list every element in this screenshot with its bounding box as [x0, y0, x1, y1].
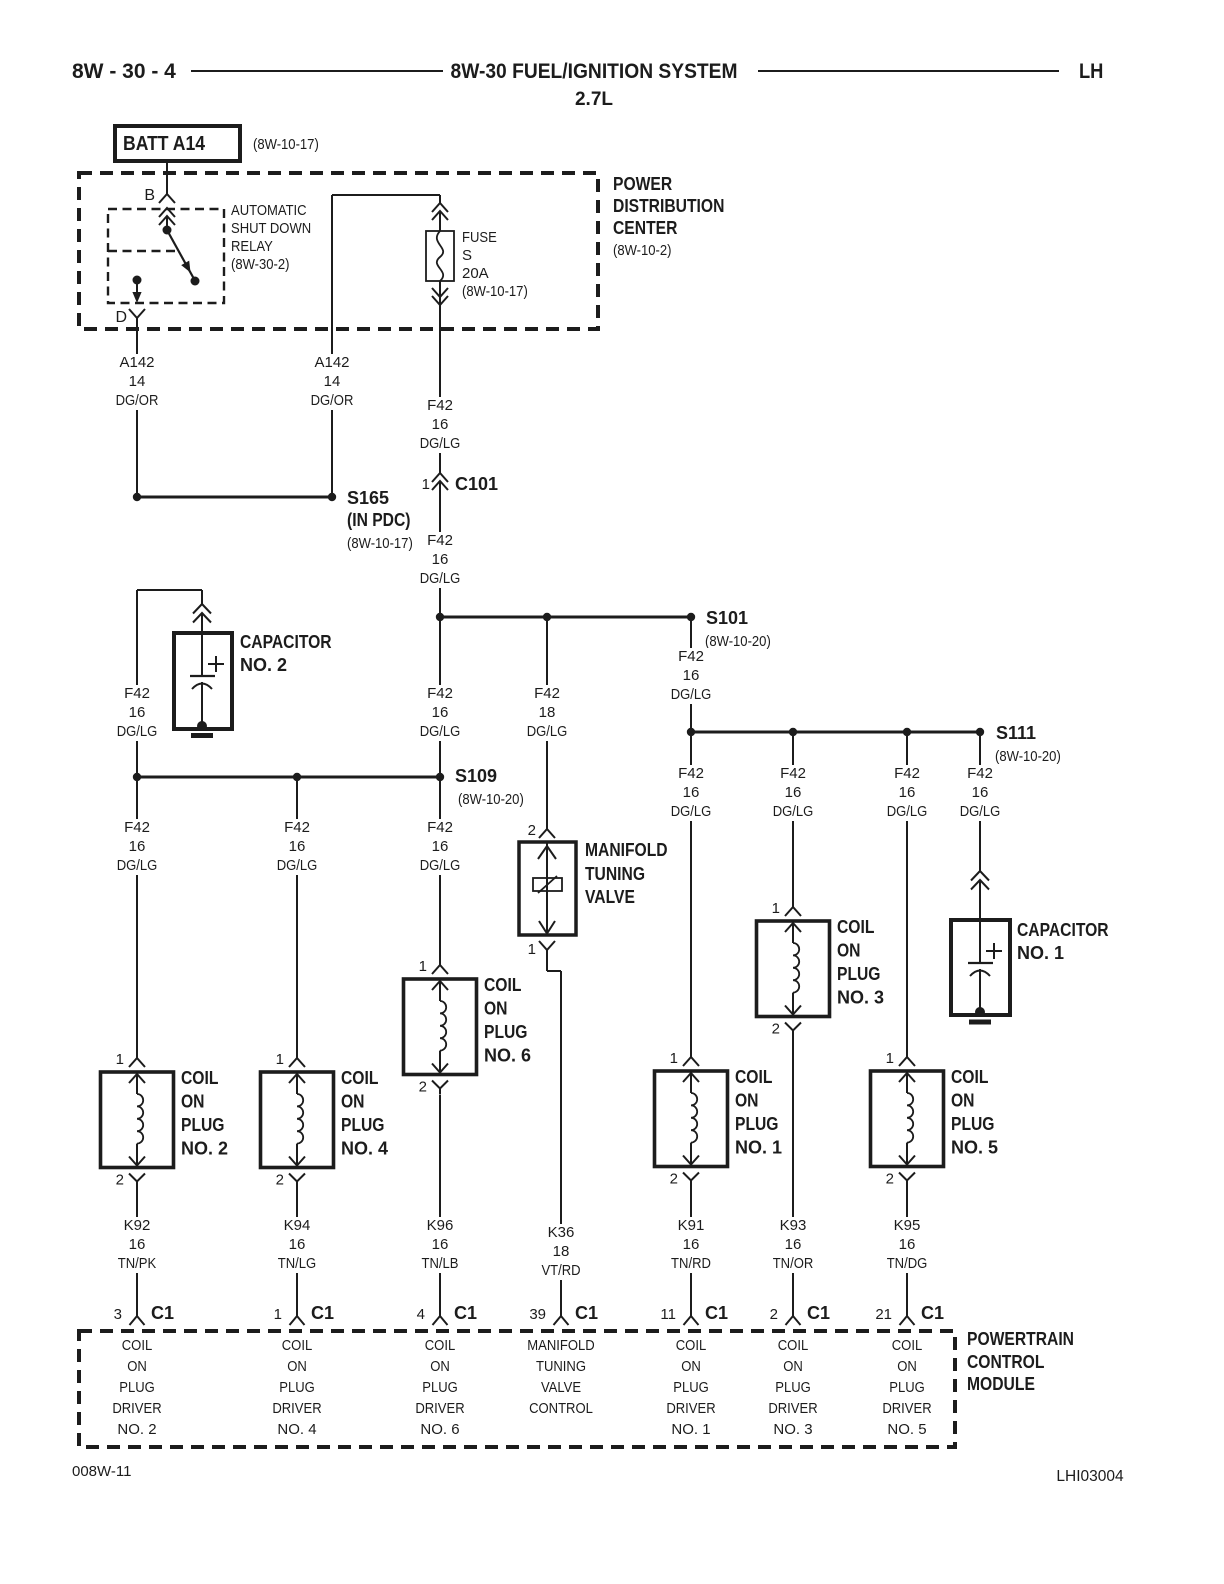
- svg-text:16: 16: [432, 551, 449, 568]
- junction dot S165 left: [133, 493, 141, 501]
- wire label K96: [417, 1217, 464, 1273]
- svg-text:CAPACITOR: CAPACITOR: [1017, 920, 1109, 940]
- wire label K column 2: [112, 819, 163, 875]
- automatic shut down relay dashed box: [108, 209, 224, 303]
- wire S111 to capacitor 1: [979, 732, 981, 871]
- junction dot S111 a: [687, 728, 695, 736]
- connector C1 pin 39: [554, 1316, 569, 1325]
- svg-text:S101: S101: [706, 608, 748, 628]
- svg-text:COIL: COIL: [892, 1337, 923, 1354]
- coil-on-plug no 1 box: [655, 1071, 728, 1167]
- coil-on-plug no 3 pin 1 connector: [792, 891, 794, 907]
- svg-text:2: 2: [419, 1079, 427, 1096]
- svg-text:NO. 2: NO. 2: [240, 655, 287, 675]
- wire label A142 14 DG/OR left: [111, 354, 164, 410]
- splice S165 bus: [137, 496, 332, 499]
- wire S111 to coil 1: [690, 732, 692, 1058]
- svg-text:2: 2: [772, 1021, 780, 1038]
- junction dot S111 c: [903, 728, 911, 736]
- svg-text:16: 16: [785, 1236, 802, 1253]
- wire coil 2 to PCM: [136, 1187, 138, 1316]
- svg-text:NO. 4: NO. 4: [277, 1421, 316, 1438]
- svg-text:(8W-10-20): (8W-10-20): [458, 791, 524, 808]
- svg-text:MANIFOLD: MANIFOLD: [585, 840, 668, 860]
- svg-text:FUSE: FUSE: [462, 229, 497, 246]
- svg-text:CONTROL: CONTROL: [529, 1400, 593, 1417]
- svg-text:S165: S165: [347, 488, 389, 508]
- svg-text:A142: A142: [119, 354, 154, 371]
- wire label K94: [273, 1217, 321, 1273]
- svg-text:PLUG: PLUG: [837, 964, 881, 984]
- wire C101 to S101 bus: [439, 481, 441, 617]
- svg-text:16: 16: [972, 784, 989, 801]
- svg-text:18: 18: [539, 704, 556, 721]
- svg-text:SHUT DOWN: SHUT DOWN: [231, 220, 311, 237]
- svg-text:LHI03004: LHI03004: [1056, 1468, 1124, 1485]
- svg-text:ON: ON: [735, 1091, 759, 1111]
- relay pin D connector: [129, 309, 145, 318]
- connector C1 pin 4: [433, 1316, 448, 1325]
- svg-text:16: 16: [432, 838, 449, 855]
- coil-on-plug no 1 pin 1 connector: [690, 1041, 692, 1057]
- wire coil 5 to PCM: [906, 1186, 908, 1316]
- junction dot S111 b: [789, 728, 797, 736]
- svg-text:MANIFOLD: MANIFOLD: [527, 1337, 595, 1354]
- splice S111 bus: [691, 731, 980, 734]
- svg-text:F42: F42: [534, 685, 560, 702]
- svg-text:PLUG: PLUG: [951, 1114, 995, 1134]
- svg-text:C1: C1: [454, 1303, 477, 1323]
- svg-text:NO. 6: NO. 6: [484, 1046, 531, 1066]
- svg-text:DRIVER: DRIVER: [882, 1400, 931, 1417]
- wire S109 to coil 4: [296, 777, 298, 1058]
- connector C1 pin 21: [900, 1316, 915, 1325]
- wire capacitor no 2 branch: [137, 589, 202, 591]
- svg-text:ON: ON: [681, 1358, 701, 1375]
- capacitor no 1 ground: [969, 1020, 991, 1025]
- svg-text:S: S: [462, 247, 472, 264]
- wire S109 to coil 6: [439, 777, 441, 965]
- svg-text:PLUG: PLUG: [119, 1379, 155, 1396]
- wire label K column 6: [415, 819, 466, 875]
- svg-text:16: 16: [899, 784, 916, 801]
- svg-text:ON: ON: [341, 1092, 365, 1112]
- wire label F42 16 DG/LG S101 column: [666, 648, 717, 704]
- svg-text:NO. 3: NO. 3: [773, 1421, 812, 1438]
- wire S101 to S111: [690, 617, 692, 732]
- svg-text:F42: F42: [427, 397, 453, 414]
- svg-text:2: 2: [670, 1171, 678, 1188]
- svg-text:C1: C1: [921, 1303, 944, 1323]
- svg-text:ON: ON: [783, 1358, 803, 1375]
- svg-text:COIL: COIL: [837, 917, 874, 937]
- svg-text:2: 2: [116, 1172, 124, 1189]
- svg-text:NO. 1: NO. 1: [1017, 943, 1064, 963]
- svg-text:S109: S109: [455, 766, 497, 786]
- svg-text:DG/LG: DG/LG: [671, 803, 712, 820]
- svg-text:8W-30 FUEL/IGNITION SYSTEM: 8W-30 FUEL/IGNITION SYSTEM: [451, 60, 738, 83]
- svg-text:TN/RD: TN/RD: [671, 1255, 711, 1272]
- svg-text:COIL: COIL: [282, 1337, 313, 1354]
- capacitor no 2 ground: [191, 733, 213, 738]
- svg-text:NO. 4: NO. 4: [341, 1139, 388, 1159]
- svg-text:COIL: COIL: [341, 1068, 378, 1088]
- svg-text:F42: F42: [427, 819, 453, 836]
- svg-text:16: 16: [785, 784, 802, 801]
- wire S101 bus down column: [439, 617, 441, 777]
- svg-text:PLUG: PLUG: [181, 1115, 225, 1135]
- svg-text:C101: C101: [455, 474, 498, 494]
- svg-text:TN/LB: TN/LB: [422, 1255, 459, 1272]
- svg-text:DG/OR: DG/OR: [116, 392, 159, 409]
- fuse input connector: [432, 203, 448, 212]
- svg-text:1: 1: [886, 1050, 894, 1067]
- capacitor no 2 box: [174, 633, 232, 729]
- svg-text:16: 16: [289, 838, 306, 855]
- wire S111 to coil 3: [792, 732, 794, 906]
- splice S101 bus: [440, 616, 691, 619]
- svg-text:20A: 20A: [462, 265, 489, 282]
- manifold tuning valve solenoid symbol: [538, 846, 556, 859]
- capacitor no 1 connector: [971, 871, 989, 881]
- svg-text:NO. 2: NO. 2: [181, 1139, 228, 1159]
- coil-on-plug no 5 coil symbol: [899, 1073, 915, 1082]
- relay output contact: [133, 276, 142, 285]
- splice S109 bus: [137, 776, 440, 779]
- svg-text:NO. 1: NO. 1: [671, 1421, 710, 1438]
- svg-text:16: 16: [432, 704, 449, 721]
- svg-text:DG/LG: DG/LG: [420, 723, 461, 740]
- svg-text:3: 3: [114, 1306, 122, 1323]
- svg-text:PLUG: PLUG: [673, 1379, 709, 1396]
- svg-text:VALVE: VALVE: [585, 887, 635, 907]
- svg-text:TN/DG: TN/DG: [887, 1255, 928, 1272]
- wire coil 4 to PCM: [296, 1187, 298, 1316]
- svg-text:S111: S111: [996, 723, 1036, 743]
- wire label K93: [768, 1217, 819, 1273]
- svg-text:DRIVER: DRIVER: [666, 1400, 715, 1417]
- svg-text:DISTRIBUTION: DISTRIBUTION: [613, 196, 724, 216]
- svg-text:(8W-10-20): (8W-10-20): [705, 633, 771, 650]
- svg-text:PLUG: PLUG: [735, 1114, 779, 1134]
- svg-text:(8W-30-2): (8W-30-2): [231, 256, 290, 273]
- svg-text:F42: F42: [678, 765, 704, 782]
- svg-text:ON: ON: [837, 941, 861, 961]
- svg-text:CAPACITOR: CAPACITOR: [240, 632, 332, 652]
- svg-text:008W-11: 008W-11: [72, 1463, 131, 1480]
- svg-text:(8W-10-17): (8W-10-17): [253, 136, 319, 153]
- svg-text:18: 18: [553, 1243, 570, 1260]
- manifold tuning valve pin 1 connector: [539, 941, 555, 950]
- svg-text:ON: ON: [287, 1358, 307, 1375]
- svg-text:DG/LG: DG/LG: [887, 803, 928, 820]
- svg-text:1: 1: [528, 941, 536, 958]
- coil-on-plug no 5 pin 1 connector: [906, 1041, 908, 1057]
- svg-text:F42: F42: [284, 819, 310, 836]
- powertrain control module dashed box: [79, 1331, 955, 1447]
- svg-text:DG/LG: DG/LG: [117, 857, 158, 874]
- svg-text:ON: ON: [484, 999, 508, 1019]
- svg-text:11: 11: [660, 1306, 676, 1323]
- junction dot S109 right: [436, 773, 444, 781]
- svg-text:ON: ON: [951, 1091, 975, 1111]
- wire label K36: [536, 1224, 585, 1280]
- capacitor no 1 symbol: [979, 920, 981, 963]
- svg-text:1: 1: [422, 476, 430, 493]
- svg-text:PLUG: PLUG: [341, 1115, 385, 1135]
- svg-text:39: 39: [529, 1306, 546, 1323]
- wire coil 1 to PCM: [690, 1186, 692, 1316]
- svg-text:K93: K93: [780, 1217, 807, 1234]
- svg-text:1: 1: [274, 1306, 282, 1323]
- wire PDC bus to fuse: [332, 194, 440, 196]
- coil-on-plug no 1 coil symbol: [683, 1073, 699, 1082]
- svg-text:DRIVER: DRIVER: [768, 1400, 817, 1417]
- wire label S111 col1: [666, 765, 717, 821]
- wire label F42 16 DG/LG fuse output: [415, 397, 466, 453]
- svg-text:PLUG: PLUG: [422, 1379, 458, 1396]
- wire label F42 18 DG/LG MTV column: [522, 685, 573, 741]
- svg-text:2: 2: [886, 1171, 894, 1188]
- coil-on-plug no 4 box: [261, 1072, 334, 1168]
- svg-text:COIL: COIL: [484, 975, 521, 995]
- svg-text:DRIVER: DRIVER: [112, 1400, 161, 1417]
- header rule left: [191, 70, 443, 72]
- fuse output connector: [432, 288, 448, 297]
- svg-text:DG/LG: DG/LG: [277, 857, 318, 874]
- svg-text:COIL: COIL: [425, 1337, 456, 1354]
- svg-text:C1: C1: [151, 1303, 174, 1323]
- svg-text:DG/LG: DG/LG: [420, 570, 461, 587]
- wire label F42 16 DG/LG center column: [415, 685, 466, 741]
- svg-text:DG/OR: DG/OR: [311, 392, 354, 409]
- connector C1 pin 11: [684, 1316, 699, 1325]
- svg-text:COIL: COIL: [951, 1067, 988, 1087]
- svg-text:C1: C1: [311, 1303, 334, 1323]
- wire label S111 col3: [768, 765, 819, 821]
- svg-text:F42: F42: [427, 685, 453, 702]
- svg-text:DRIVER: DRIVER: [272, 1400, 321, 1417]
- svg-text:PLUG: PLUG: [484, 1022, 528, 1042]
- svg-text:(8W-10-20): (8W-10-20): [995, 748, 1061, 765]
- wire MTV pin1 jog: [547, 970, 561, 972]
- wire S101 bus to manifold tuning valve: [546, 617, 548, 829]
- svg-text:K36: K36: [548, 1224, 575, 1241]
- svg-text:DRIVER: DRIVER: [415, 1400, 464, 1417]
- svg-text:A142: A142: [314, 354, 349, 371]
- connector C1 pin 1: [290, 1316, 305, 1325]
- junction dot S165 right: [328, 493, 336, 501]
- svg-text:COIL: COIL: [778, 1337, 809, 1354]
- coil-on-plug no 2 coil symbol: [129, 1074, 145, 1083]
- svg-text:VALVE: VALVE: [541, 1379, 581, 1396]
- relay common pole: [163, 226, 172, 235]
- svg-text:F42: F42: [894, 765, 920, 782]
- svg-text:16: 16: [432, 1236, 449, 1253]
- svg-text:16: 16: [129, 704, 146, 721]
- svg-text:NO. 3: NO. 3: [837, 988, 884, 1008]
- svg-text:F42: F42: [780, 765, 806, 782]
- relay switch arm: [167, 230, 194, 278]
- svg-text:16: 16: [129, 838, 146, 855]
- svg-text:F42: F42: [427, 532, 453, 549]
- svg-text:F42: F42: [124, 685, 150, 702]
- coil-on-plug no 2 pin 2 connector: [129, 1174, 145, 1182]
- svg-text:1: 1: [116, 1051, 124, 1068]
- svg-text:16: 16: [899, 1236, 916, 1253]
- coil-on-plug no 6 pin 1 connector: [439, 949, 441, 965]
- svg-text:21: 21: [875, 1306, 892, 1323]
- svg-text:VT/RD: VT/RD: [541, 1262, 580, 1279]
- wire coil 6 to PCM: [439, 1095, 441, 1316]
- wire fuse vertical: [439, 195, 441, 203]
- wire label K91: [666, 1217, 716, 1273]
- fuse S 20A: [426, 231, 454, 281]
- svg-text:2: 2: [770, 1306, 778, 1323]
- svg-text:NO. 5: NO. 5: [887, 1421, 926, 1438]
- svg-text:1: 1: [772, 900, 780, 917]
- svg-text:TN/LG: TN/LG: [278, 1255, 316, 1272]
- junction dot S111 d: [976, 728, 984, 736]
- svg-text:MODULE: MODULE: [967, 1374, 1035, 1394]
- svg-text:DG/LG: DG/LG: [773, 803, 814, 820]
- svg-text:F42: F42: [967, 765, 993, 782]
- svg-text:NO. 1: NO. 1: [735, 1138, 782, 1158]
- connector C1 pin 2: [786, 1316, 801, 1325]
- svg-text:C1: C1: [575, 1303, 598, 1323]
- junction dot at C101 column: [436, 613, 444, 621]
- coil-on-plug no 6 pin 2 connector: [432, 1081, 448, 1089]
- svg-text:TUNING: TUNING: [585, 864, 645, 884]
- capacitor no 2 symbol: [201, 633, 203, 676]
- coil-on-plug no 2 pin 1 connector: [136, 1042, 138, 1058]
- coil-on-plug no 5 pin 2 connector: [899, 1173, 915, 1181]
- wire coil 3 to PCM: [792, 1036, 794, 1316]
- coil-on-plug no 3 box: [757, 921, 830, 1017]
- svg-text:D: D: [115, 309, 127, 326]
- svg-text:NO. 6: NO. 6: [420, 1421, 459, 1438]
- coil-on-plug no 2 box: [101, 1072, 174, 1168]
- svg-text:16: 16: [683, 1236, 700, 1253]
- manifold tuning valve box: [519, 842, 576, 935]
- svg-text:AUTOMATIC: AUTOMATIC: [231, 202, 307, 219]
- wire label S111 cap column: [955, 765, 1006, 821]
- junction dot S109 middle: [293, 773, 301, 781]
- coil-on-plug no 5 box: [871, 1071, 944, 1167]
- capacitor no 1 ground dot: [975, 1007, 985, 1017]
- connector C1 pin 3: [130, 1316, 145, 1325]
- coil-on-plug no 1 pin 2 connector: [683, 1173, 699, 1181]
- capacitor no 1 box: [951, 920, 1010, 1015]
- svg-text:NO. 5: NO. 5: [951, 1138, 998, 1158]
- svg-text:COIL: COIL: [181, 1068, 218, 1088]
- svg-text:PLUG: PLUG: [279, 1379, 315, 1396]
- svg-text:16: 16: [432, 416, 449, 433]
- svg-text:DG/LG: DG/LG: [117, 723, 158, 740]
- wire label F42 16 DG/LG below C101: [415, 532, 466, 588]
- relay contact pole: [191, 277, 200, 286]
- svg-text:PLUG: PLUG: [775, 1379, 811, 1396]
- svg-text:CONTROL: CONTROL: [967, 1352, 1044, 1372]
- svg-text:ON: ON: [430, 1358, 450, 1375]
- capacitor no 2 connector: [193, 604, 211, 614]
- svg-text:F42: F42: [124, 819, 150, 836]
- svg-text:2.7L: 2.7L: [575, 89, 613, 110]
- coil-on-plug no 4 pin 2 connector: [289, 1174, 305, 1182]
- svg-text:C1: C1: [807, 1303, 830, 1323]
- svg-text:K95: K95: [894, 1217, 921, 1234]
- wire label A142 14 DG/OR right: [306, 354, 359, 410]
- svg-text:DG/LG: DG/LG: [527, 723, 568, 740]
- svg-text:ON: ON: [181, 1092, 205, 1112]
- svg-text:DG/LG: DG/LG: [420, 857, 461, 874]
- svg-text:BATT A14: BATT A14: [123, 133, 206, 155]
- svg-text:ON: ON: [127, 1358, 147, 1375]
- header rule right: [758, 70, 1059, 72]
- wire label K column 4: [272, 819, 323, 875]
- svg-text:2: 2: [528, 822, 536, 839]
- relay pin B mating connector: [159, 208, 175, 217]
- svg-text:TN/OR: TN/OR: [773, 1255, 814, 1272]
- wire S111 to coil 5: [906, 732, 908, 1058]
- wire label F42 16 DG/LG capacitor 2 column: [112, 685, 163, 741]
- svg-text:1: 1: [276, 1051, 284, 1068]
- svg-text:14: 14: [129, 373, 146, 390]
- wire label K92: [113, 1217, 161, 1273]
- svg-text:1: 1: [419, 958, 427, 975]
- svg-text:DG/LG: DG/LG: [960, 803, 1001, 820]
- wire relay pin D to S165: [136, 334, 138, 493]
- coil-on-plug no 4 pin 1 connector: [296, 1042, 298, 1058]
- svg-text:ON: ON: [897, 1358, 917, 1375]
- svg-text:(IN PDC): (IN PDC): [347, 510, 411, 530]
- wire BATT A14 to relay pin B: [166, 159, 168, 194]
- coil-on-plug no 6 coil symbol: [432, 981, 448, 990]
- svg-text:NO. 2: NO. 2: [117, 1421, 156, 1438]
- svg-text:16: 16: [683, 784, 700, 801]
- svg-text:16: 16: [129, 1236, 146, 1253]
- svg-text:(8W-10-17): (8W-10-17): [462, 283, 528, 300]
- svg-text:(8W-10-2): (8W-10-2): [613, 242, 672, 259]
- svg-text:POWER: POWER: [613, 174, 672, 194]
- svg-text:K91: K91: [678, 1217, 705, 1234]
- svg-text:K94: K94: [284, 1217, 311, 1234]
- svg-text:C1: C1: [705, 1303, 728, 1323]
- coil-on-plug no 3 coil symbol: [785, 923, 801, 932]
- svg-text:COIL: COIL: [122, 1337, 153, 1354]
- svg-text:F42: F42: [678, 648, 704, 665]
- svg-text:K92: K92: [124, 1217, 151, 1234]
- connector C101: [432, 473, 448, 482]
- svg-text:POWERTRAIN: POWERTRAIN: [967, 1329, 1074, 1349]
- junction dot at MTV branch: [543, 613, 551, 621]
- svg-text:14: 14: [324, 373, 341, 390]
- capacitor no 2 ground dot: [197, 721, 207, 731]
- svg-text:4: 4: [417, 1306, 425, 1323]
- svg-text:COIL: COIL: [676, 1337, 707, 1354]
- svg-text:COIL: COIL: [735, 1067, 772, 1087]
- svg-text:DG/LG: DG/LG: [420, 435, 461, 452]
- svg-text:K96: K96: [427, 1217, 454, 1234]
- svg-text:16: 16: [683, 667, 700, 684]
- svg-text:DG/LG: DG/LG: [671, 686, 712, 703]
- wire label S111 col5: [882, 765, 933, 821]
- pin B connector: [159, 194, 175, 203]
- coil-on-plug no 6 box: [404, 979, 477, 1075]
- manifold tuning valve pin 2 connector: [539, 829, 555, 838]
- coil-on-plug no 3 pin 2 connector: [785, 1023, 801, 1031]
- svg-text:1: 1: [670, 1050, 678, 1067]
